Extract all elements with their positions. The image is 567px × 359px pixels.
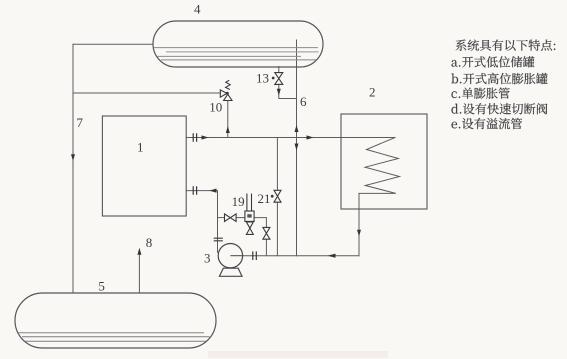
svg-text:7: 7 [77, 115, 84, 130]
wire pipe 8 [138, 254, 140, 293]
wire coil return [358, 193, 360, 255]
hourglass valve bypass outlet [263, 227, 270, 239]
note text block (vector CJK) [451, 40, 555, 130]
wire valve21 branch [276, 138, 278, 256]
safety valve 10 [220, 80, 232, 100]
gate valve bypass [225, 214, 237, 222]
arrow up into valve10 [226, 126, 230, 133]
svg-text:3: 3 [204, 250, 211, 265]
arrows [71, 89, 361, 258]
arrow up on pipe 8 [137, 248, 141, 255]
arrow up on riser [295, 125, 299, 132]
faint cropped caption at bottom [208, 351, 388, 358]
svg-text:10: 10 [209, 99, 222, 114]
svg-text:8: 8 [146, 235, 153, 250]
arrow down on downcomer 7 [71, 154, 75, 161]
quick-acting valve 19 [245, 194, 254, 235]
arrow down on riser [295, 144, 299, 151]
arrow right on supply to coil [307, 135, 314, 139]
flange pair pump suction [214, 238, 223, 241]
wire downcomer 7 [72, 44, 74, 293]
wire expansion riser 6 [296, 40, 298, 256]
svg-text:1: 1 [137, 139, 144, 154]
arrow down on coil return [357, 230, 361, 237]
valve 21 [271, 190, 281, 202]
flange pair pump discharge [253, 251, 256, 260]
valve 13 [272, 73, 283, 85]
boiler box 1 [102, 116, 186, 216]
svg-text:6: 6 [300, 94, 307, 109]
flange pair boiler return [193, 186, 196, 195]
wire bypass mid [236, 217, 245, 219]
wire boiler return [187, 191, 218, 253]
expansion tank 4 [153, 21, 323, 67]
arrow left on bottom main [328, 254, 336, 258]
wire bypass outlet [254, 218, 266, 228]
svg-text:4: 4 [194, 2, 201, 17]
storage tank 5 [15, 293, 216, 348]
wire bypass inlet [218, 217, 225, 219]
svg-text:19: 19 [232, 194, 245, 209]
svg-text:5: 5 [98, 278, 105, 293]
wire pump bottom main [230, 255, 359, 257]
arrow right on supply after boiler [202, 135, 209, 139]
flange pair boiler outlet [193, 133, 256, 260]
wire to safety valve 10 [73, 92, 220, 94]
wire bypass down [265, 239, 267, 256]
arrow down valve13 branch [277, 89, 281, 96]
svg-text:21: 21 [258, 191, 271, 206]
svg-text:2: 2 [369, 84, 376, 99]
pump 3 [218, 244, 242, 277]
wire coil zigzag [359, 138, 400, 194]
heat user box 2 [341, 114, 427, 209]
wire valve13 branch [279, 67, 297, 99]
arrow left into boiler return [210, 189, 217, 193]
svg-text:13: 13 [256, 71, 269, 86]
wire supply main [187, 137, 396, 139]
wire valve10 drop [227, 101, 229, 138]
wire tank4 inlet [73, 43, 153, 45]
